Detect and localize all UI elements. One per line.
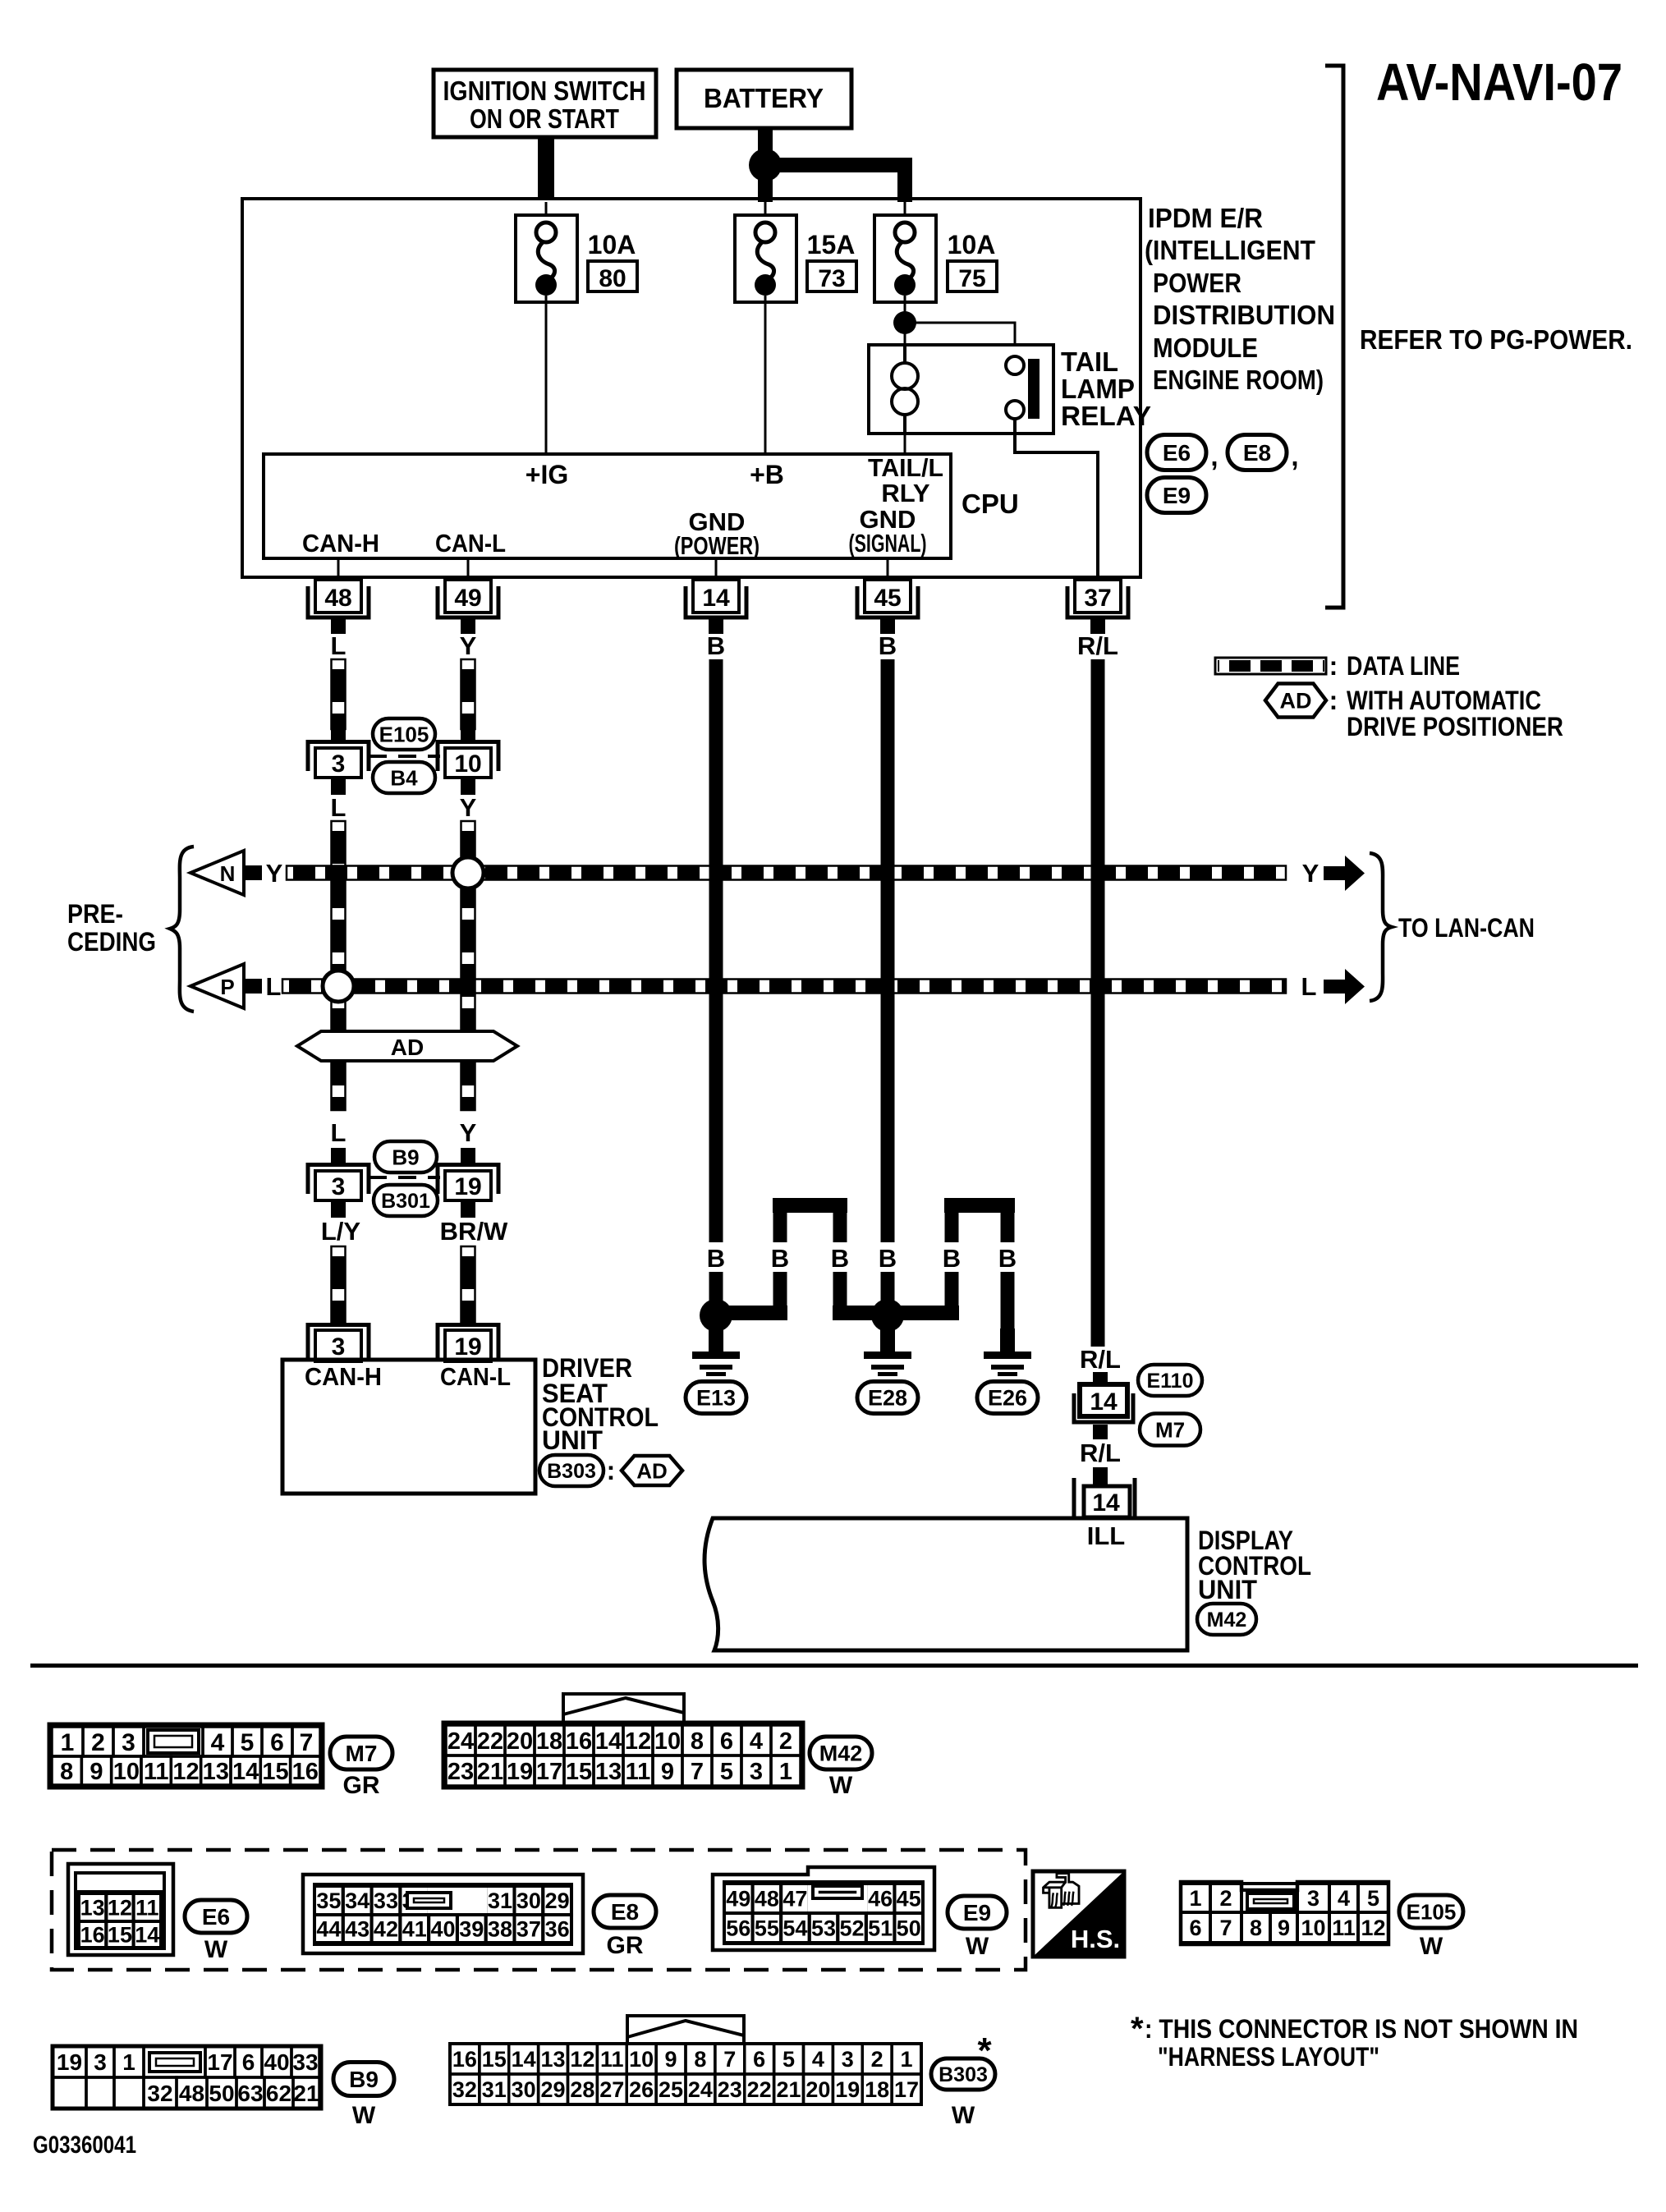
svg-text:*: *	[1131, 2011, 1144, 2047]
wire CAN-H data line (pin48 to E105 junction)	[332, 659, 346, 729]
svg-text:14: 14	[702, 585, 730, 612]
svg-text:CAN-L: CAN-L	[440, 1362, 511, 1391]
svg-text:B9: B9	[392, 1145, 419, 1169]
wire CAN-L data line (down to B9 junction)	[461, 821, 475, 1110]
label Y above B9 junction	[460, 1118, 477, 1164]
svg-text:L: L	[331, 793, 347, 822]
svg-text:UNIT: UNIT	[542, 1425, 603, 1455]
svg-text:45: 45	[897, 1887, 921, 1911]
svg-text:28: 28	[570, 2077, 594, 2102]
svg-text:21: 21	[293, 2081, 319, 2106]
svg-text::: :	[1329, 651, 1338, 681]
svg-text:14: 14	[1090, 1388, 1118, 1416]
svg-text:1: 1	[901, 2047, 913, 2072]
footnote about connector	[1131, 2011, 1578, 2072]
svg-text:E105: E105	[379, 722, 429, 746]
svg-text:11: 11	[1332, 1916, 1356, 1940]
label CAN-H	[302, 529, 379, 558]
junction circle CAN-L upper line	[452, 857, 484, 888]
junction battery dot	[749, 149, 782, 181]
svg-text:14: 14	[232, 1759, 259, 1785]
svg-text:3: 3	[750, 1759, 763, 1785]
svg-text:B303: B303	[547, 1460, 596, 1483]
svg-text:47: 47	[783, 1887, 807, 1911]
fuse F2 15A (73)	[735, 202, 796, 302]
title AV-NAVI-07	[1376, 53, 1622, 112]
svg-text:E8: E8	[1243, 440, 1271, 466]
label L below junction	[331, 793, 347, 822]
svg-text:39: 39	[459, 1917, 484, 1942]
label BR/W	[440, 1217, 508, 1246]
svg-text:6: 6	[242, 2049, 255, 2075]
svg-text:19: 19	[454, 1333, 481, 1361]
svg-text:N: N	[220, 861, 236, 886]
connector ref E6 oval (pinout)	[185, 1900, 247, 1963]
svg-text:6: 6	[720, 1728, 733, 1755]
svg-text:10: 10	[113, 1759, 140, 1785]
svg-text:19: 19	[507, 1759, 533, 1785]
label CAN-L (seat)	[440, 1362, 511, 1391]
wire battery dot down to IPDM	[758, 177, 773, 202]
svg-text:TAIL: TAIL	[1061, 346, 1118, 377]
svg-text:55: 55	[755, 1916, 779, 1941]
svg-text:45: 45	[874, 585, 901, 612]
label DRIVER SEAT CONTROL UNIT	[542, 1353, 659, 1455]
wire relay contact to pin 37	[1015, 419, 1098, 577]
svg-text:9: 9	[661, 1759, 674, 1785]
svg-text:REFER TO PG-POWER.: REFER TO PG-POWER.	[1360, 324, 1632, 355]
svg-text:17: 17	[894, 2077, 919, 2102]
svg-text:MODULE: MODULE	[1153, 333, 1258, 363]
svg-text:AV-NAVI-07: AV-NAVI-07	[1376, 53, 1622, 112]
connector ref B301 oval	[374, 1185, 438, 1216]
svg-text:GR: GR	[607, 1932, 644, 1959]
connector ref E9 oval	[1147, 478, 1206, 513]
svg-text:TO LAN-CAN: TO LAN-CAN	[1398, 913, 1535, 943]
data line CAN-H horizontal (upper, Y)	[287, 866, 1286, 880]
svg-text:15: 15	[566, 1759, 592, 1785]
connector pin 37 (IPDM)	[1067, 580, 1128, 634]
connector M42 pinout	[443, 1694, 803, 1787]
svg-text:8: 8	[1250, 1916, 1262, 1940]
wire color label B (pin 14)	[707, 631, 725, 660]
svg-text:44: 44	[316, 1917, 341, 1942]
label L right + arrow to LAN-CAN	[1301, 969, 1365, 1004]
svg-text:R/L: R/L	[1080, 1345, 1121, 1374]
label B over E28 wire	[879, 1244, 897, 1273]
svg-text:BR/W: BR/W	[440, 1217, 508, 1246]
svg-text:8: 8	[694, 2047, 706, 2072]
svg-text:1: 1	[1189, 1886, 1201, 1911]
svg-text:(SIGNAL): (SIGNAL)	[849, 529, 927, 558]
wire color label B (pin 45)	[879, 631, 897, 660]
label 15A / 73	[807, 230, 856, 292]
svg-text:33: 33	[374, 1888, 398, 1913]
svg-text:29: 29	[541, 2077, 566, 2102]
svg-text:E28: E28	[868, 1386, 907, 1411]
svg-text:DATA LINE: DATA LINE	[1347, 651, 1460, 681]
svg-text:40: 40	[430, 1917, 455, 1942]
svg-text:18: 18	[536, 1728, 562, 1755]
connector pin 10 of E105/B4	[438, 742, 498, 796]
arrow P (preceding)	[190, 964, 281, 1008]
label DISPLAY CONTROL UNIT	[1198, 1526, 1311, 1604]
label B over E13 wire	[707, 1244, 725, 1273]
svg-text:5: 5	[720, 1759, 733, 1785]
svg-text:53: 53	[811, 1916, 836, 1941]
wire color label Y	[460, 631, 477, 660]
connector E105 pinout	[1181, 1882, 1388, 1944]
connector ref B4 oval	[373, 762, 435, 793]
connector ref M7 oval (inline)	[1140, 1414, 1200, 1446]
wire CPU to pin 14	[715, 558, 718, 581]
CPU box	[264, 454, 951, 558]
svg-text:W: W	[966, 1933, 989, 1960]
svg-text:12: 12	[1361, 1916, 1385, 1940]
svg-text:19: 19	[835, 2077, 860, 2102]
svg-text:16: 16	[452, 2047, 477, 2072]
svg-text:W: W	[352, 2102, 376, 2129]
svg-text:: THIS CONNECTOR IS NOT SHOWN: : THIS CONNECTOR IS NOT SHOWN IN	[1145, 2014, 1578, 2044]
label +B	[750, 460, 784, 489]
wire battery to fuse 75 (thick horizontal + down)	[768, 158, 912, 202]
svg-text:Y: Y	[460, 631, 477, 660]
wire CPU to pin 48	[337, 558, 340, 581]
tail lamp relay box	[869, 345, 1053, 434]
svg-text:13: 13	[541, 2047, 566, 2072]
connector pin 3 (driver seat control unit)	[308, 1325, 369, 1362]
svg-text:5: 5	[783, 2047, 795, 2072]
connector ref B9 oval	[374, 1141, 437, 1173]
svg-text:BATTERY: BATTERY	[704, 83, 824, 113]
svg-text:20: 20	[805, 2077, 830, 2102]
svg-text:8: 8	[691, 1728, 704, 1755]
brace left (preceding group)	[170, 847, 194, 1012]
ground symbol E13	[692, 1329, 740, 1376]
label GND (POWER)	[674, 507, 760, 560]
connector pin 49 (IPDM)	[438, 580, 498, 634]
connector junction dashed link B9/B301	[369, 1176, 440, 1179]
wire B (pin 45 to E28)	[881, 659, 895, 1242]
label PRE-CEDING	[67, 899, 156, 957]
svg-text:34: 34	[345, 1888, 369, 1913]
connector 14 (E110/M7)	[1074, 1372, 1133, 1439]
svg-text:AD: AD	[636, 1458, 668, 1483]
svg-text:L: L	[1301, 972, 1317, 1001]
svg-text:21: 21	[477, 1759, 503, 1785]
ignition switch box	[434, 70, 656, 137]
svg-text:M7: M7	[346, 1741, 378, 1766]
svg-text:7: 7	[723, 2047, 736, 2072]
svg-text:(POWER): (POWER)	[674, 531, 760, 560]
svg-text:49: 49	[726, 1887, 750, 1911]
svg-text:B: B	[771, 1244, 789, 1273]
connector junction 10 stub above	[461, 727, 475, 741]
connector ref E8 oval (pinout)	[594, 1895, 656, 1959]
svg-text:3: 3	[1307, 1886, 1319, 1911]
connector pin 14 (IPDM)	[686, 580, 746, 634]
svg-text:13: 13	[80, 1896, 105, 1921]
svg-text:1: 1	[779, 1759, 792, 1785]
svg-text:12: 12	[570, 2047, 594, 2072]
label CAN-H (seat)	[305, 1362, 382, 1391]
svg-text:40: 40	[264, 2049, 289, 2075]
svg-text:H.S.: H.S.	[1071, 1925, 1120, 1953]
svg-text:W: W	[1420, 1933, 1443, 1960]
wire fuse F1 to CPU +IG	[545, 296, 548, 454]
svg-text:48: 48	[324, 585, 351, 612]
connector ref M7 oval (pinout)	[330, 1737, 392, 1799]
separator line	[30, 1664, 1638, 1668]
svg-text:73: 73	[818, 265, 845, 292]
svg-text:22: 22	[747, 2077, 772, 2102]
svg-text:80: 80	[599, 265, 626, 292]
svg-text:,: ,	[1291, 441, 1298, 471]
svg-text:32: 32	[147, 2081, 172, 2106]
svg-text:7: 7	[1219, 1916, 1232, 1940]
wire ignition switch to IPDM (thick)	[538, 137, 554, 200]
svg-text:6: 6	[270, 1729, 284, 1756]
svg-text:16: 16	[566, 1728, 592, 1755]
svg-text:31: 31	[482, 2077, 507, 2102]
svg-text:B4: B4	[390, 765, 418, 790]
wire E28 below label	[881, 1272, 895, 1304]
junction dot E13	[700, 1299, 732, 1332]
svg-text:B: B	[998, 1244, 1017, 1273]
svg-text::: :	[1329, 686, 1338, 715]
arrow N (preceding)	[190, 851, 283, 895]
svg-text:E105: E105	[1407, 1899, 1457, 1924]
svg-text:23: 23	[447, 1759, 474, 1785]
svg-text:7: 7	[691, 1759, 704, 1785]
svg-text:24: 24	[447, 1728, 474, 1755]
H.S. hand symbol	[1033, 1871, 1124, 1957]
svg-text:50: 50	[209, 2081, 234, 2106]
svg-text:17: 17	[207, 2049, 232, 2075]
svg-text:L: L	[331, 631, 347, 660]
svg-text:2: 2	[91, 1729, 105, 1756]
svg-text:2: 2	[1219, 1886, 1232, 1911]
svg-text:R/L: R/L	[1080, 1439, 1121, 1467]
label R/L above E110 connector	[1080, 1345, 1121, 1374]
svg-text:Y: Y	[1302, 859, 1319, 888]
svg-text:51: 51	[868, 1916, 893, 1941]
connector ref B303 oval (pinout)	[931, 2031, 995, 2129]
svg-text:CAN-H: CAN-H	[305, 1362, 382, 1391]
connector ref B303 oval	[539, 1455, 615, 1486]
brace right (TO LAN-CAN)	[1370, 853, 1392, 1001]
connector 14 (ILL input)	[1074, 1467, 1135, 1518]
label TO LAN-CAN	[1398, 913, 1535, 943]
svg-text:48: 48	[755, 1887, 779, 1911]
label Y below junction	[460, 793, 477, 822]
svg-text:CAN-H: CAN-H	[302, 529, 379, 558]
svg-text:GR: GR	[343, 1772, 380, 1799]
ground symbol E28	[864, 1329, 911, 1376]
ground ref E28 oval	[857, 1382, 918, 1414]
svg-text:B303: B303	[939, 2063, 988, 2086]
connector M7 pinout	[49, 1724, 323, 1787]
svg-text:10: 10	[1301, 1916, 1325, 1940]
svg-text:6: 6	[753, 2047, 765, 2072]
fuse F1 10A (80)	[516, 202, 577, 302]
svg-text:B: B	[879, 1244, 897, 1273]
svg-text:3: 3	[332, 750, 346, 778]
legend data line sample	[1215, 651, 1460, 681]
svg-text:,: ,	[1210, 441, 1218, 471]
right reference bracket	[1325, 66, 1343, 608]
svg-text:CEDING: CEDING	[67, 927, 156, 957]
svg-text:E8: E8	[611, 1899, 639, 1925]
wire L/Y to seat connector	[332, 1246, 346, 1323]
svg-text:8: 8	[60, 1759, 73, 1785]
svg-text:49: 49	[454, 585, 481, 612]
svg-text:2: 2	[871, 2047, 883, 2072]
svg-text:ILL: ILL	[1087, 1521, 1126, 1550]
svg-text:36: 36	[545, 1917, 570, 1942]
wire relay coil to CPU	[904, 434, 906, 454]
svg-text:54: 54	[783, 1916, 807, 1941]
svg-text:PRE-: PRE-	[67, 899, 123, 929]
svg-text:(INTELLIGENT: (INTELLIGENT	[1145, 235, 1315, 265]
svg-text:27: 27	[599, 2077, 624, 2102]
svg-text:26: 26	[629, 2077, 654, 2102]
svg-text:33: 33	[292, 2049, 318, 2075]
relay coil	[892, 345, 918, 434]
connector pin 48 (IPDM)	[308, 580, 369, 634]
wire battery stub	[758, 128, 773, 153]
label 10A / 80	[588, 230, 637, 292]
svg-text:14: 14	[595, 1728, 622, 1755]
svg-text:W: W	[204, 1936, 228, 1963]
svg-text::: :	[607, 1456, 616, 1485]
label L/Y	[321, 1217, 361, 1246]
figure id G03360041	[33, 2132, 136, 2159]
svg-text:14: 14	[512, 2047, 536, 2072]
svg-text:30: 30	[512, 2077, 536, 2102]
svg-text:15: 15	[262, 1759, 288, 1785]
AD option banner	[297, 1031, 517, 1061]
svg-text:E6: E6	[1163, 440, 1191, 466]
svg-text:13: 13	[203, 1759, 229, 1785]
label Y right + arrow to LAN-CAN	[1302, 856, 1365, 891]
relay contact	[1006, 356, 1040, 419]
svg-text:B: B	[707, 631, 725, 660]
svg-text:L: L	[331, 1118, 347, 1147]
wire BR/W to seat connector	[461, 1246, 475, 1323]
wire CPU to pin 49	[467, 558, 470, 581]
svg-text:22: 22	[477, 1728, 503, 1755]
svg-text:3: 3	[332, 1173, 346, 1200]
svg-text:29: 29	[545, 1888, 570, 1913]
svg-text:21: 21	[777, 2077, 801, 2102]
wire B (pin 14 to E13)	[709, 659, 723, 1242]
svg-text:10A: 10A	[588, 230, 636, 259]
connector junction dashed link E105/B4	[369, 755, 440, 758]
label CAN-L	[435, 529, 506, 558]
connector pin 45 (IPDM)	[857, 580, 918, 634]
svg-text:POWER: POWER	[1153, 268, 1241, 298]
svg-text:+IG: +IG	[526, 460, 568, 489]
wire CPU to pin 45	[887, 558, 889, 581]
svg-text:20: 20	[507, 1728, 533, 1755]
label IPDM E/R block	[1145, 203, 1335, 395]
bridge 1 (E13 to E28)	[723, 1198, 895, 1320]
svg-text:UNIT: UNIT	[1198, 1575, 1257, 1604]
svg-text:ENGINE ROOM): ENGINE ROOM)	[1153, 365, 1324, 395]
svg-text:4: 4	[211, 1729, 225, 1756]
svg-text:4: 4	[812, 2047, 824, 2072]
svg-text:10: 10	[629, 2047, 654, 2072]
svg-text:11: 11	[626, 1759, 651, 1785]
data line CAN-L horizontal (lower, L)	[282, 980, 1286, 994]
label GND (SIGNAL)	[849, 505, 927, 558]
svg-text:2: 2	[779, 1728, 792, 1755]
wire junction to relay contact	[905, 323, 1015, 356]
svg-text:P: P	[220, 975, 234, 999]
svg-text:14: 14	[135, 1923, 159, 1948]
junction dot E28	[871, 1299, 904, 1332]
label TAIL LAMP RELAY	[1061, 346, 1151, 431]
svg-text:RELAY: RELAY	[1061, 401, 1151, 431]
svg-text:9: 9	[89, 1759, 103, 1785]
label ILL	[1087, 1521, 1126, 1550]
svg-text:IPDM E/R: IPDM E/R	[1148, 203, 1263, 233]
svg-text:ON OR START: ON OR START	[470, 103, 619, 134]
connector ref E110 oval	[1138, 1365, 1202, 1396]
connector ref M42 oval	[1197, 1604, 1256, 1635]
svg-text:13: 13	[595, 1759, 622, 1785]
label +IG	[526, 460, 568, 489]
svg-text:42: 42	[374, 1917, 398, 1942]
svg-text:17: 17	[536, 1759, 562, 1785]
svg-text:37: 37	[1084, 585, 1111, 612]
connector pin 3 of E105/B4	[308, 742, 369, 796]
svg-text:L: L	[266, 972, 282, 1001]
svg-text:24: 24	[688, 2077, 713, 2102]
svg-text:RLY: RLY	[881, 479, 929, 507]
svg-text:G03360041: G03360041	[33, 2132, 136, 2159]
svg-text:56: 56	[726, 1916, 750, 1941]
IPDM E/R box outline	[242, 199, 1140, 577]
svg-text:AD: AD	[391, 1035, 424, 1060]
svg-text:31: 31	[488, 1888, 512, 1913]
svg-text:IGNITION SWITCH: IGNITION SWITCH	[443, 76, 646, 106]
wire color label L	[331, 631, 347, 660]
svg-text:10: 10	[454, 750, 481, 778]
svg-text:11: 11	[135, 1896, 159, 1921]
svg-text:M42: M42	[819, 1742, 863, 1766]
svg-text:7: 7	[300, 1729, 314, 1756]
svg-text:3: 3	[842, 2047, 854, 2072]
junction circle CAN-H lower line	[323, 971, 354, 1002]
svg-text:E6: E6	[202, 1904, 230, 1930]
connector B9 pinout	[53, 2046, 321, 2109]
svg-text:23: 23	[718, 2077, 742, 2102]
svg-text:11: 11	[144, 1759, 169, 1785]
svg-text:11: 11	[600, 2047, 624, 2072]
ground ref E13 oval	[686, 1382, 746, 1414]
svg-text:W: W	[952, 2102, 975, 2129]
connector B303 pinout	[450, 2016, 921, 2104]
svg-text:14: 14	[1092, 1489, 1120, 1517]
junction dot below fuse F3	[893, 311, 916, 334]
svg-text:AD: AD	[1280, 689, 1312, 714]
svg-text:30: 30	[516, 1888, 541, 1913]
svg-text:B: B	[831, 1244, 849, 1273]
svg-text:12: 12	[625, 1728, 651, 1755]
svg-text:B9: B9	[349, 2067, 379, 2092]
